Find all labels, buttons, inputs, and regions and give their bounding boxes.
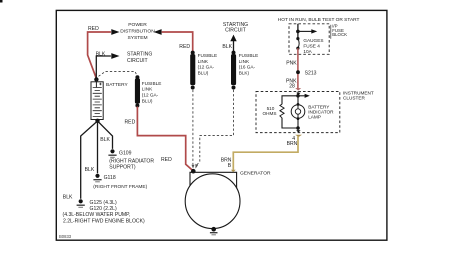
svg-text:SUPPORT): SUPPORT) (109, 165, 136, 171)
svg-text:FUSE 4: FUSE 4 (303, 43, 320, 48)
battery indicator lamp label (308, 105, 334, 120)
instrument cluster label (343, 91, 374, 101)
svg-text:G125 (4.3L): G125 (4.3L) (90, 200, 117, 206)
svg-text:RED: RED (179, 44, 190, 50)
node battery negative junction (95, 119, 99, 123)
svg-text:STARTING: STARTING (127, 51, 152, 57)
arrow feed to other circuits (298, 30, 312, 32)
svg-text:LINK: LINK (142, 87, 153, 92)
starting circuit label (top) (223, 22, 248, 33)
fusible link FL2 (12 GA-BLU) (190, 51, 195, 90)
svg-text:GAUGES: GAUGES (303, 38, 323, 43)
node generator B+ junction (191, 169, 196, 174)
wire BLK fusible link FL3 to starting circuit (233, 41, 235, 52)
svg-text:LINK: LINK (239, 59, 250, 64)
svg-text:S213: S213 (305, 71, 317, 77)
svg-text:(4.3L-BELOW WATER PUMP,: (4.3L-BELOW WATER PUMP, (63, 212, 131, 218)
svg-text:(RIGHT RADIATOR: (RIGHT RADIATOR (109, 159, 154, 165)
ground G109 (108, 149, 116, 157)
svg-text:LINK: LINK (198, 59, 209, 64)
svg-text:BLK: BLK (222, 44, 232, 50)
fusible link FL2 value label (198, 53, 218, 75)
fusible link FL1 (12 GA-BLU) (135, 75, 140, 107)
wire BRN instrument cluster to generator (233, 136, 298, 170)
svg-text:(12 GA-: (12 GA- (198, 65, 215, 70)
svg-text:CIRCUIT: CIRCUIT (225, 27, 246, 33)
wire PNK fuse to instrument cluster (297, 48, 299, 89)
svg-text:10A: 10A (303, 49, 312, 54)
svg-text:(RIGHT FRONT FRAME): (RIGHT FRONT FRAME) (93, 184, 147, 190)
svg-text:BLK: BLK (63, 195, 73, 201)
generator bracket (190, 172, 237, 188)
dashed lead fusible link FL2 to generator junction (192, 90, 194, 165)
ground G125 (77, 199, 85, 207)
svg-text:CIRCUIT: CIRCUIT (127, 58, 148, 64)
svg-text:HOT IN RUN, BULB TEST OR START: HOT IN RUN, BULB TEST OR START (278, 17, 360, 23)
I/P fuse block leader line (330, 25, 332, 39)
svg-text:RED: RED (161, 157, 172, 163)
svg-text:LAMP: LAMP (308, 115, 321, 120)
svg-text:BLK: BLK (85, 167, 95, 173)
svg-text:DISTRIBUTION: DISTRIBUTION (120, 29, 155, 35)
arrow to other cluster circuits (298, 95, 305, 97)
dashed lead fusible link FL3 to generator junction (197, 90, 234, 165)
svg-text:BLU): BLU) (198, 70, 209, 75)
svg-text:G120 (2.2L): G120 (2.2L) (90, 206, 117, 212)
label G125 G120 (90, 200, 117, 212)
connector pin 4 arrow (296, 130, 300, 132)
svg-text:G118: G118 (104, 175, 116, 181)
instrument cluster dashed box (256, 92, 340, 133)
svg-text:(12 GA-: (12 GA- (142, 93, 159, 98)
battery (91, 79, 103, 119)
svg-text:RED: RED (88, 26, 99, 32)
node cluster top junction (296, 94, 300, 98)
svg-text:BLK: BLK (100, 137, 110, 143)
svg-text:POWER: POWER (128, 22, 147, 28)
svg-text:FUSIBLE: FUSIBLE (239, 53, 259, 58)
connector pin 28 arrow (295, 88, 301, 90)
svg-text:BLK): BLK) (239, 70, 250, 75)
wire to resistor (282, 96, 298, 104)
svg-text:BATTERY: BATTERY (106, 82, 128, 88)
label right radiator support (109, 159, 154, 171)
node generator ground junction (211, 227, 216, 232)
dashed tie battery positive to fusible link FL1 (99, 71, 138, 76)
svg-text:BLK: BLK (96, 51, 106, 57)
svg-text:(16 GA-: (16 GA- (239, 65, 256, 70)
fuse GAUGES FUSE 4 10A (296, 37, 299, 50)
arrow to power distribution (right) (154, 29, 162, 35)
wire hot feed inside fuse block (297, 24, 299, 38)
svg-text:RED: RED (125, 119, 136, 125)
node battery positive junction (94, 77, 98, 81)
wire BLK battery to ground G118 (97, 121, 99, 173)
svg-text:BLOCK: BLOCK (332, 32, 347, 37)
svg-text:2.2L-RIGHT FWD ENGINE BLOCK): 2.2L-RIGHT FWD ENGINE BLOCK) (63, 219, 145, 225)
wire BLK battery to ground G125 (81, 121, 98, 199)
svg-text:SYSTEM: SYSTEM (127, 35, 147, 41)
svg-text:28: 28 (289, 83, 295, 89)
arrow to starting circuit (111, 53, 119, 59)
connector at generator B terminal (231, 170, 236, 173)
starting circuit label (127, 51, 152, 63)
fuse label (303, 38, 323, 54)
wire RED battery to power distribution (88, 32, 111, 79)
wire BLK battery to starting circuit (96, 56, 111, 78)
svg-text:CLUSTER: CLUSTER (343, 96, 365, 101)
svg-text:OHMS: OHMS (262, 111, 276, 116)
node fuse feed junction (296, 30, 300, 34)
wire resistor bottom to junction (282, 118, 296, 128)
fusible link FL3 value label (239, 53, 259, 75)
wire RED fusible link FL1 to generator (137, 107, 193, 172)
svg-text:G109: G109 (119, 150, 132, 156)
node cluster bottom junction (296, 126, 300, 130)
svg-text:FUSIBLE: FUSIBLE (142, 81, 162, 86)
label 510 OHMS (262, 106, 276, 116)
wire RED power distribution to fusible link FL2 (162, 32, 193, 52)
svg-text:PNK: PNK (286, 61, 297, 67)
splice S213 (296, 70, 300, 74)
battery indicator lamp (291, 96, 305, 120)
ground G118 (93, 174, 101, 182)
arrow to power distribution (left) (111, 29, 119, 35)
arrow up to starting circuit (230, 35, 236, 42)
svg-text:BRN: BRN (287, 141, 298, 147)
I/P fuse block dashed box (289, 24, 329, 55)
svg-text:BLU): BLU) (142, 98, 153, 103)
fusible link FL1 value label (142, 81, 162, 103)
svg-text:GENERATOR: GENERATOR (240, 171, 271, 177)
ground at generator (210, 233, 218, 235)
label ground locations (63, 212, 146, 224)
power distribution system label (120, 22, 155, 41)
resistor 510 ohms (280, 104, 284, 118)
svg-text:B: B (228, 163, 232, 169)
generator body (185, 174, 240, 229)
wire lamp to bottom junction (297, 119, 299, 132)
fusible link FL3 (16 GA-BLK) (231, 51, 236, 90)
svg-text:FUSIBLE: FUSIBLE (198, 53, 218, 58)
wire cluster input (297, 92, 299, 96)
svg-text:B0833: B0833 (59, 234, 72, 239)
wire BLK battery to ground G109 (98, 121, 113, 149)
I/P fuse block label (332, 24, 347, 37)
